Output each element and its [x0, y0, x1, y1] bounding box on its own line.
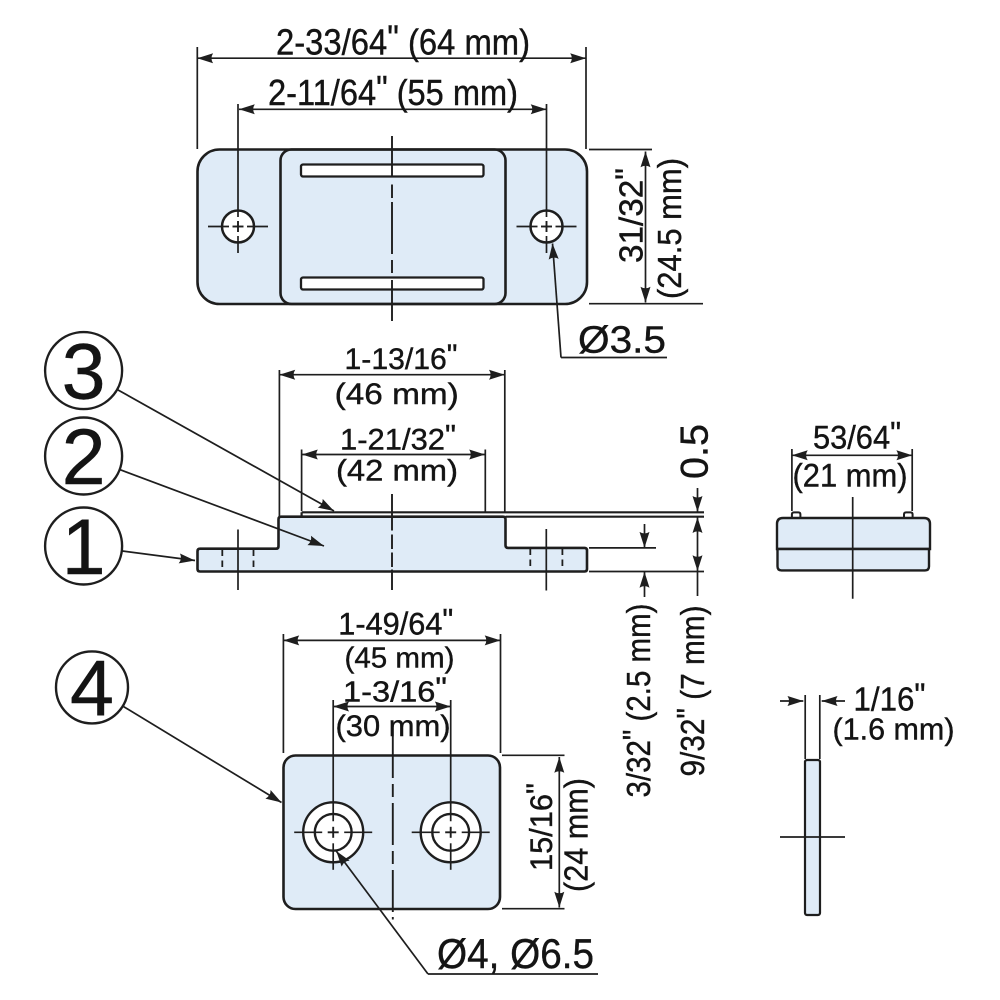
- side view: rubber pad top line: [302, 511, 704, 513]
- svg-text:1-13/16": 1-13/16": [345, 339, 458, 376]
- svg-text:2: 2: [62, 412, 106, 501]
- top view: strike plate outline: [198, 150, 588, 305]
- side view: bottom edge extension line: [589, 571, 704, 573]
- svg-text:(1.6 mm): (1.6 mm): [833, 712, 955, 747]
- top view: right screw hole with center cross: [517, 104, 577, 253]
- svg-text:(24 mm): (24 mm): [558, 778, 595, 892]
- svg-text:Ø3.5: Ø3.5: [578, 320, 666, 362]
- dimension 2.5mm: upper arrow: [644, 524, 646, 548]
- svg-text:3: 3: [62, 327, 106, 416]
- top view: left screw hole with center cross: [208, 104, 268, 253]
- dimension 30mm: dimension line: [333, 706, 451, 708]
- side view: left hole hidden lines: [222, 550, 253, 572]
- callout 1: circle: [45, 508, 122, 585]
- svg-text:2-33/64" (64 mm): 2-33/64" (64 mm): [276, 18, 530, 63]
- side view: right hole hidden lines: [530, 549, 562, 572]
- bottom view: vertical center line: [392, 736, 394, 920]
- dimension 46mm: extension lines: [279, 370, 504, 516]
- side view: right hole center line: [545, 529, 547, 591]
- dimension 1.6mm: right arrow: [822, 700, 845, 702]
- dimension 64mm: dimension line: [197, 57, 586, 59]
- svg-text:1-3/16": 1-3/16": [343, 673, 447, 709]
- svg-text:15/16": 15/16": [519, 783, 559, 871]
- dimension 7mm: tail below: [697, 572, 699, 597]
- dimension 2.5mm: lower arrow: [644, 572, 646, 597]
- svg-text:9/32" (7 mm): 9/32" (7 mm): [670, 606, 711, 777]
- side view: rubber pad left edge: [301, 512, 303, 516]
- svg-text:1-49/64": 1-49/64": [338, 602, 453, 642]
- svg-text:(46 mm): (46 mm): [335, 378, 459, 411]
- leader diameter 3.5: underline: [561, 357, 667, 359]
- svg-text:2-11/64" (55 mm): 2-11/64" (55 mm): [268, 68, 518, 113]
- bottom view: right counterbored hole: [412, 700, 490, 870]
- end view: vertical center line: [852, 497, 854, 599]
- callout 1: leader arrow: [122, 551, 195, 561]
- bottom view: left counterbored hole: [294, 700, 372, 870]
- dimension 46mm: dimension line: [279, 374, 504, 376]
- svg-text:(42 mm): (42 mm): [336, 455, 458, 488]
- side view: body top line extended right: [506, 516, 705, 518]
- dimension 42mm: extension lines: [302, 450, 486, 512]
- svg-text:(30 mm): (30 mm): [336, 710, 451, 743]
- edge view: horizontal center line: [780, 836, 845, 838]
- edge view: extension lines: [805, 695, 820, 759]
- side view: left hole center line: [237, 530, 239, 591]
- svg-text:31/32": 31/32": [609, 168, 650, 263]
- dimension 0.5mm: upper arrow: [697, 488, 699, 512]
- dimension 64mm: extension lines: [197, 47, 586, 149]
- top view: upper slot: [301, 165, 484, 177]
- end view: right rubber nub: [904, 512, 913, 518]
- dimension 21mm: dimension line: [792, 454, 912, 456]
- callout 3: circle: [45, 332, 122, 409]
- dimension 55mm: dimension line: [239, 108, 547, 110]
- svg-text:4: 4: [70, 643, 114, 732]
- svg-text:Ø4, Ø6.5: Ø4, Ø6.5: [437, 930, 594, 977]
- svg-text:(45 mm): (45 mm): [345, 643, 455, 675]
- dimension 1.6mm: left arrow: [780, 700, 803, 702]
- svg-text:1-21/32": 1-21/32": [340, 420, 456, 457]
- svg-text:(21 mm): (21 mm): [793, 458, 908, 494]
- dimension 2.5mm: extension line: [589, 547, 656, 549]
- svg-text:53/64": 53/64": [813, 416, 901, 456]
- dimension 24.5mm: dimension line: [645, 152, 647, 303]
- callout 3: leader arrow: [118, 390, 334, 511]
- leader diameter 3.5: arrow line: [553, 244, 562, 358]
- svg-text:1: 1: [62, 502, 106, 591]
- edge view: counter plate strip: [805, 760, 820, 915]
- side view: vertical center line: [391, 494, 393, 590]
- svg-text:0.5: 0.5: [674, 424, 717, 479]
- dimension 45mm: dimension line: [283, 639, 500, 641]
- dimension 21mm: extension lines: [792, 449, 912, 511]
- callout 2: circle: [45, 418, 122, 495]
- end view: magnet body: [777, 518, 930, 549]
- callout 2: leader arrow: [120, 470, 324, 546]
- callout 4: circle: [56, 651, 128, 723]
- end view: base plate: [778, 549, 930, 570]
- leader diameter 4 and 6.5: arrow line: [336, 851, 428, 974]
- top view: lower slot: [301, 278, 484, 290]
- top view: vertical center line: [391, 136, 393, 321]
- bottom view: counter plate outline: [284, 756, 501, 910]
- dimension 24.5mm: top extension line: [589, 149, 652, 151]
- end view: left rubber nub: [792, 512, 801, 518]
- dimension 24.5mm: bottom extension line: [589, 303, 703, 305]
- top view: magnet case inner outline: [281, 150, 506, 305]
- dimension 24mm: dimension line: [558, 757, 560, 908]
- callout 4: leader arrow: [124, 707, 282, 803]
- svg-text:3/32" (2.5 mm): 3/32" (2.5 mm): [616, 604, 657, 798]
- dimension 42mm: dimension line: [302, 454, 485, 456]
- side view: plate profile: [198, 517, 588, 572]
- dimension 45mm: extension lines: [283, 634, 500, 753]
- dimension 7mm: dimension line: [697, 517, 699, 571]
- leader diameter 4 and 6.5: underline: [428, 973, 598, 975]
- dimension 24mm: extension lines: [502, 755, 565, 908]
- svg-text:(24.5 mm): (24.5 mm): [651, 158, 688, 299]
